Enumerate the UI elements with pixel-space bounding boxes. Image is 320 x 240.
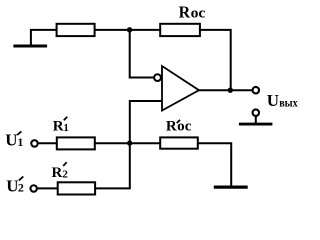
wire Roc to output branch	[200, 30, 231, 90]
svg-text:1: 1	[17, 135, 23, 149]
svg-text:2: 2	[62, 169, 68, 181]
wire terminal to R'2	[38, 187, 58, 189]
label R'oc	[166, 118, 192, 134]
op-amp U1	[154, 66, 199, 111]
terminal U2 input	[30, 185, 37, 192]
wire node B to non-inverting input	[130, 101, 162, 143]
label U2 input	[6, 176, 24, 195]
wire ground stem to resistor R1	[31, 30, 57, 45]
label R'1	[53, 117, 69, 135]
svg-text:U: U	[267, 91, 279, 110]
terminal Uout	[253, 87, 259, 94]
wire terminal to R'1	[39, 142, 57, 144]
resistor R1 (unlabeled, top-left)	[57, 24, 95, 36]
svg-text:U: U	[5, 130, 17, 149]
resistor R'2	[58, 182, 95, 194]
svg-text:R: R	[179, 3, 191, 22]
svg-text:ос: ос	[191, 6, 206, 22]
wire R1 to Roc	[95, 29, 161, 31]
wire terminal to ground	[255, 116, 257, 123]
resistor R'1	[57, 137, 95, 149]
node A junction	[127, 27, 132, 32]
node B junction	[127, 140, 132, 145]
wire op-amp output	[199, 89, 253, 91]
svg-text:ос: ос	[177, 118, 192, 134]
wire node A to inverting input	[130, 30, 154, 78]
label Roc	[179, 3, 206, 22]
resistor R'oc	[160, 137, 198, 148]
terminal U1 input	[31, 140, 38, 147]
ground (output)	[239, 123, 273, 126]
label Uvyx	[267, 91, 298, 110]
resistor Roc	[160, 24, 200, 36]
terminal output reference	[253, 109, 259, 116]
svg-text:R: R	[52, 165, 63, 181]
label U1 input	[5, 130, 23, 149]
node output junction	[228, 88, 233, 93]
svg-text:2: 2	[18, 181, 24, 195]
ground (bottom-right)	[214, 186, 248, 189]
svg-text:вых: вых	[279, 95, 298, 109]
label R'2	[52, 162, 69, 181]
svg-text:1: 1	[63, 122, 69, 134]
wire R'oc to ground	[198, 143, 231, 186]
wire R'1 to node B	[95, 142, 160, 144]
svg-text:U: U	[6, 176, 18, 195]
ground (top-left)	[13, 44, 47, 47]
svg-text:R: R	[166, 118, 177, 134]
wire R'2 to node B	[95, 143, 130, 188]
svg-text:R: R	[53, 119, 64, 135]
